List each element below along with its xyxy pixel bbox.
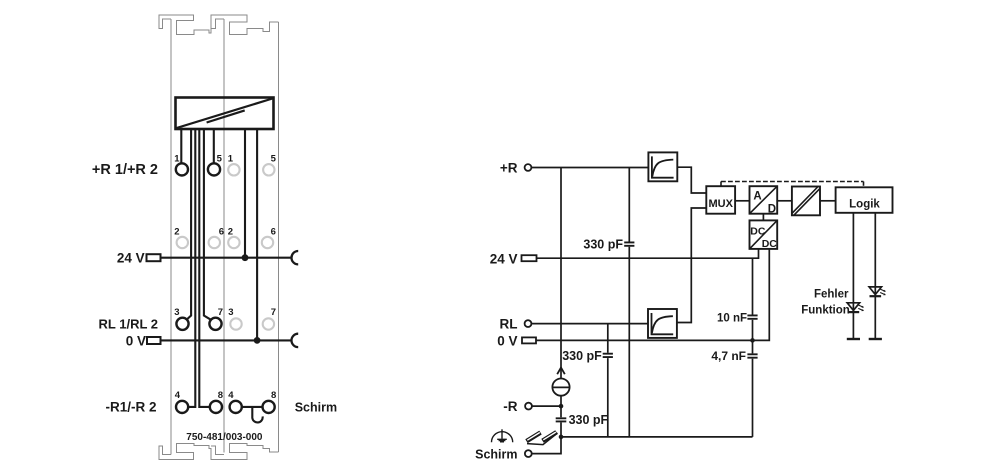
capacitor C3 330pF plates bbox=[556, 418, 567, 421]
svg-text:A: A bbox=[753, 191, 761, 203]
transformer U1 second diagonal bbox=[207, 110, 245, 122]
LED Fehler triangle bbox=[869, 287, 881, 295]
svg-text:8: 8 bbox=[271, 390, 276, 401]
capacitor C5 4.7nF wire bottom bbox=[752, 359, 754, 437]
wire AD to isolator bbox=[777, 200, 792, 202]
LED Fehler arrows bbox=[880, 289, 885, 295]
0V terminal rect module bbox=[147, 337, 161, 344]
amplifier A1 axes bbox=[652, 156, 674, 177]
wire LED Fehler line bbox=[874, 213, 876, 339]
wire +R vertical branch bbox=[560, 168, 562, 379]
shield clamp symbol stripe1 bbox=[527, 433, 540, 441]
svg-text:4: 4 bbox=[228, 390, 234, 401]
svg-text:4,7 nF: 4,7 nF bbox=[711, 349, 746, 363]
capacitor C2 330pF wire bottom bbox=[607, 358, 609, 437]
wire to terminal 3 bbox=[187, 129, 191, 319]
svg-text:Schirm: Schirm bbox=[295, 401, 337, 415]
svg-text:6: 6 bbox=[271, 227, 276, 238]
0V line module bbox=[161, 339, 292, 341]
wire Schirm riser bbox=[532, 437, 561, 454]
capacitor C5 4.7nF plates bbox=[747, 354, 757, 357]
svg-text:1: 1 bbox=[174, 154, 180, 165]
unused terminal 2b circle bbox=[228, 237, 239, 248]
AD converter box bbox=[750, 186, 778, 214]
svg-text:Fehler: Fehler bbox=[814, 288, 849, 300]
terminal 1 circle bbox=[176, 163, 188, 175]
terminal 4b circle shield bbox=[230, 401, 242, 413]
current source circle bbox=[552, 379, 569, 396]
amplifier A1 curve bbox=[652, 160, 673, 177]
LED Fehler end bar bbox=[869, 338, 882, 340]
amplifier A2 axes bbox=[652, 313, 674, 334]
node 0V terminal rect bbox=[522, 337, 536, 343]
amplifier A2 curve bbox=[652, 316, 673, 333]
wire to 0V rail bbox=[256, 129, 258, 340]
shield clamp symbol plate bbox=[527, 433, 558, 445]
wire source to -R node bbox=[560, 396, 562, 418]
transformer U1 main diagonal bbox=[177, 99, 273, 129]
svg-text:750-481/003-000: 750-481/003-000 bbox=[186, 432, 263, 443]
LED Funktion end bar bbox=[847, 338, 860, 340]
amplifier A2 box bbox=[648, 309, 677, 338]
wire to terminal 8 bbox=[199, 129, 210, 407]
capacitor C4 10nF wire top bbox=[752, 258, 754, 314]
ground symbol stem bbox=[501, 429, 503, 439]
24V field arc bbox=[292, 251, 299, 264]
node +R terminal circle bbox=[525, 164, 532, 171]
module top contour bbox=[159, 15, 279, 35]
wire A1 to MUX input1 bbox=[677, 167, 706, 193]
svg-text:DC: DC bbox=[750, 225, 766, 237]
wire RL to amplifier bbox=[532, 323, 649, 325]
svg-text:2: 2 bbox=[228, 227, 233, 238]
capacitor C5 4.7nF wire top bbox=[752, 340, 754, 353]
module bottom contour bbox=[159, 444, 279, 460]
module middle wall bbox=[223, 19, 225, 453]
terminal 8b circle shield bbox=[263, 401, 275, 413]
svg-text:24 V: 24 V bbox=[117, 251, 145, 266]
svg-text:7: 7 bbox=[218, 307, 223, 318]
svg-text:3: 3 bbox=[228, 307, 233, 318]
wire 0V rail bbox=[536, 249, 769, 341]
wire shield bottom rail bbox=[561, 436, 753, 438]
terminal 7 circle bbox=[209, 318, 221, 330]
svg-text:Funktion: Funktion bbox=[801, 304, 850, 316]
unused terminal 6b circle bbox=[262, 237, 273, 248]
module bottom contour notch2 bbox=[211, 446, 224, 455]
unused terminal 7b circle bbox=[263, 318, 274, 329]
unused terminal 2 circle bbox=[177, 237, 188, 248]
wire to terminal 4 bbox=[188, 129, 195, 407]
shield link terminals 4-8 right column bbox=[242, 407, 263, 423]
wire 24V rail bbox=[537, 249, 759, 258]
dashed boundary left tick bbox=[720, 182, 722, 186]
unused terminal 6 circle bbox=[209, 237, 220, 248]
svg-text:Schirm: Schirm bbox=[475, 447, 517, 461]
0V field arc bbox=[291, 334, 298, 347]
wire +R to amplifier bbox=[532, 167, 649, 169]
svg-text:5: 5 bbox=[217, 154, 223, 165]
isolator diagonal 1 bbox=[792, 187, 818, 214]
capacitor C1 330pF wire top bbox=[628, 168, 630, 242]
terminal 4 circle bbox=[176, 401, 188, 413]
node RL terminal circle bbox=[525, 320, 532, 327]
LED Fehler cathode bar bbox=[870, 295, 882, 297]
terminal 8 circle bbox=[210, 401, 222, 413]
Logik box bbox=[836, 187, 893, 213]
svg-text:7: 7 bbox=[271, 307, 276, 318]
current source arrow bbox=[557, 368, 565, 375]
capacitor C4 10nF wire bottom bbox=[752, 320, 754, 341]
ground symbol bars bbox=[497, 439, 507, 442]
shield clamp symbol bar1 bbox=[527, 433, 541, 442]
svg-text:24 V: 24 V bbox=[490, 252, 518, 267]
unused terminal 1b circle bbox=[228, 164, 239, 175]
transformer U1 box bbox=[176, 98, 274, 130]
isolator diagonal 2 bbox=[794, 188, 820, 215]
junction dot 0V module bbox=[254, 337, 261, 344]
terminal 3 circle bbox=[176, 318, 188, 330]
svg-text:+R: +R bbox=[500, 160, 518, 175]
LED Funktion cathode bar bbox=[848, 311, 860, 313]
junction dot 24V module bbox=[242, 254, 249, 261]
capacitor C1 330pF plates bbox=[624, 242, 634, 245]
LED Funktion arrows bbox=[858, 305, 863, 311]
svg-text:10 nF: 10 nF bbox=[717, 313, 747, 325]
junction dot shield node bbox=[559, 435, 564, 440]
svg-text:6: 6 bbox=[219, 227, 224, 238]
module top contour notch2 bbox=[211, 19, 224, 28]
wire -R to node bbox=[532, 405, 561, 407]
wire to terminal 1 bbox=[180, 129, 182, 163]
svg-text:D: D bbox=[768, 203, 776, 215]
dashed boundary right tick bbox=[863, 182, 865, 186]
wire isolator to Logik bbox=[820, 200, 836, 202]
wire A2 to MUX input2 bbox=[677, 208, 706, 323]
ground symbol arc bbox=[492, 432, 513, 443]
dashed isolation boundary bbox=[721, 181, 864, 183]
svg-text:RL 1/RL 2: RL 1/RL 2 bbox=[99, 317, 158, 332]
svg-text:330 pF: 330 pF bbox=[569, 413, 609, 427]
capacitor C1 330pF wire bottom bbox=[628, 247, 630, 437]
svg-text:1: 1 bbox=[228, 154, 234, 165]
svg-text:+R 1/+R 2: +R 1/+R 2 bbox=[92, 162, 158, 178]
terminal 5 circle bbox=[208, 163, 220, 175]
svg-text:0 V: 0 V bbox=[126, 334, 146, 349]
MUX box bbox=[706, 186, 735, 214]
unused terminal 5b circle bbox=[263, 164, 274, 175]
svg-text:0 V: 0 V bbox=[497, 333, 517, 348]
junction dot -R node bbox=[559, 404, 564, 409]
DCDC converter box bbox=[750, 220, 778, 249]
wire MUX to AD bbox=[735, 200, 749, 202]
svg-text:2: 2 bbox=[174, 227, 179, 238]
wire to terminal 7 bbox=[204, 129, 211, 320]
amplifier A1 box bbox=[648, 152, 677, 181]
DCDC converter diagonal bbox=[750, 220, 778, 249]
svg-text:3: 3 bbox=[174, 307, 179, 318]
module right wall bbox=[278, 22, 280, 452]
svg-text:330 pF: 330 pF bbox=[583, 238, 623, 252]
unused terminal 3b circle bbox=[230, 318, 241, 329]
capacitor C2 330pF wire top bbox=[607, 324, 609, 353]
SCHEMATIC-RIGHT bbox=[492, 152, 893, 457]
svg-text:8: 8 bbox=[218, 390, 223, 401]
wire C3 to shield node bbox=[560, 422, 562, 437]
svg-text:4: 4 bbox=[175, 390, 181, 401]
junction dot 0V right bbox=[750, 338, 755, 343]
svg-text:-R1/-R 2: -R1/-R 2 bbox=[105, 400, 156, 415]
24V line module bbox=[161, 257, 292, 259]
AD converter diagonal bbox=[750, 186, 778, 214]
24V terminal rect module bbox=[147, 254, 161, 261]
svg-text:Logik: Logik bbox=[849, 198, 880, 210]
node Schirm terminal circle bbox=[525, 450, 532, 457]
wire to terminal 5 bbox=[213, 129, 215, 163]
svg-text:DC: DC bbox=[762, 238, 778, 250]
module left wall bbox=[170, 19, 172, 454]
svg-text:MUX: MUX bbox=[708, 198, 733, 210]
capacitor C2 330pF plates bbox=[603, 354, 613, 357]
svg-text:5: 5 bbox=[271, 154, 277, 165]
node -R terminal circle bbox=[525, 403, 532, 410]
shield clamp symbol stripe2 bbox=[543, 432, 556, 440]
LED Funktion triangle bbox=[847, 303, 859, 311]
wire AD to DCDC bbox=[762, 214, 764, 221]
wire to 24V rail bbox=[244, 129, 246, 258]
node 24V terminal rect bbox=[522, 255, 537, 261]
isolator box bbox=[792, 187, 820, 216]
current source chord bbox=[553, 386, 569, 388]
wire LED Funktion line bbox=[852, 213, 854, 339]
capacitor C4 10nF plates bbox=[747, 315, 757, 318]
svg-text:RL: RL bbox=[500, 316, 518, 331]
svg-text:330 pF: 330 pF bbox=[562, 349, 602, 363]
svg-text:-R: -R bbox=[503, 399, 517, 414]
shield clamp symbol bar2 bbox=[543, 432, 557, 441]
